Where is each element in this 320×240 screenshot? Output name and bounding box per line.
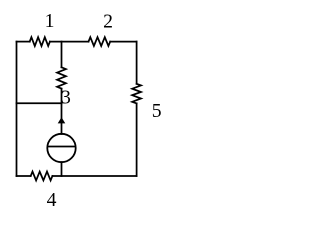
wire middle horizontal: [17, 102, 62, 104]
resistor R5: [132, 84, 141, 104]
wire right rail lower: [136, 103, 138, 176]
wire left rail: [16, 42, 18, 176]
wire top-middle segment: [50, 41, 89, 43]
wire source top lead: [61, 103, 63, 134]
wire source bottom lead: [61, 162, 63, 176]
current source I1 bar: [48, 146, 76, 148]
wire R3 bottom lead: [61, 89, 63, 104]
wire bottom-left segment: [17, 175, 31, 177]
resistor R1: [30, 37, 50, 46]
current source I1 circle: [47, 134, 75, 162]
wire bottom-right segment: [52, 175, 136, 177]
svg-text:1: 1: [45, 10, 55, 32]
wire right rail upper: [136, 42, 138, 84]
svg-text:5: 5: [152, 100, 162, 122]
resistor R4: [31, 172, 53, 181]
svg-text:4: 4: [47, 189, 57, 211]
wire R3 top lead: [61, 42, 63, 68]
resistor R3: [57, 67, 66, 88]
resistor R2: [89, 37, 111, 46]
wire top-left segment: [17, 41, 30, 43]
current source I1 arrow: [58, 117, 66, 123]
wire top-right segment: [110, 41, 136, 43]
svg-text:2: 2: [103, 10, 113, 32]
svg-text:3: 3: [61, 87, 71, 109]
